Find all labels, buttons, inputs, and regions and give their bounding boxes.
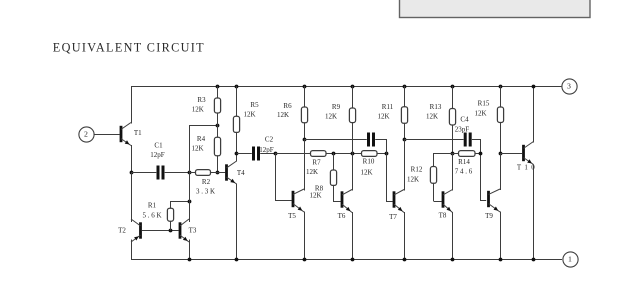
- node C1 / R2 / vertical: [188, 171, 192, 175]
- label R14 value 74.6: [455, 168, 473, 176]
- wire R12 corner to node: [434, 153, 453, 155]
- wire T10 collector to top rail: [533, 86, 535, 143]
- wire T2 emitter to bottom rail: [131, 240, 133, 260]
- label C2: [265, 136, 274, 144]
- svg-text:12K: 12K: [426, 113, 438, 121]
- wire terminal 2 to T1 base: [94, 134, 120, 136]
- svg-text:C1: C1: [154, 142, 163, 150]
- wire node to R14: [453, 153, 459, 155]
- wire node to C2: [237, 153, 252, 155]
- svg-text:7 4 . 6: 7 4 . 6: [455, 168, 473, 176]
- svg-text:R9: R9: [332, 103, 341, 111]
- wire R4 bottom lead: [217, 156, 219, 173]
- label C4 value 23pF: [455, 125, 470, 133]
- svg-text:T7: T7: [389, 213, 397, 221]
- svg-text:R2: R2: [202, 178, 211, 186]
- transistor T1: [120, 123, 131, 146]
- node R15 top on rail: [499, 85, 503, 89]
- node T9 emitter on bottom rail: [499, 258, 503, 262]
- wire R3 bottom lead: [217, 113, 219, 125]
- transistor T10: [522, 142, 533, 165]
- label T7: [389, 213, 397, 221]
- resistor R10: [362, 151, 378, 157]
- wire corner down to T9 base: [480, 153, 486, 201]
- capacitor C4: [464, 133, 472, 147]
- label R8: [315, 185, 324, 193]
- resistor R13: [449, 109, 455, 126]
- wire R9 top lead: [352, 86, 354, 108]
- svg-text:R13: R13: [430, 103, 442, 111]
- wire node down to T9 collector: [500, 153, 502, 190]
- svg-text:12pF: 12pF: [150, 151, 165, 159]
- label R15: [478, 99, 490, 107]
- node R9 top on rail: [351, 85, 355, 89]
- svg-text:2: 2: [84, 130, 88, 139]
- svg-text:T4: T4: [237, 169, 245, 177]
- label R9 value 12K: [325, 113, 337, 121]
- wire R9 node down to T6 collector: [352, 153, 354, 191]
- resistor R14: [459, 151, 476, 157]
- label R2 value 3.3K: [196, 187, 215, 195]
- capacitor C1: [157, 166, 165, 180]
- wire T9 emitter to bottom rail: [500, 212, 502, 260]
- label T3: [189, 227, 197, 235]
- wire R3R4 junction to vertical: [189, 125, 217, 127]
- wire C1 to node: [165, 172, 189, 174]
- label R6: [283, 102, 292, 110]
- node T10 emitter on bottom rail: [532, 258, 536, 262]
- node R14 right / C4 / T9 base: [479, 152, 483, 156]
- svg-text:3 . 3 K: 3 . 3 K: [196, 187, 215, 195]
- node R6 top on rail: [303, 85, 307, 89]
- svg-text:EQUIVALENT CIRCUIT: EQUIVALENT CIRCUIT: [53, 40, 205, 54]
- wire R15 bottom lead: [500, 123, 502, 154]
- wire row1 node to C3: [304, 139, 367, 141]
- node R1 tee on vertical: [188, 200, 192, 204]
- label R13 value 12K: [426, 113, 438, 121]
- transistor T9: [487, 189, 500, 212]
- node R9 bottom / T6 collector on row2: [351, 152, 355, 156]
- svg-text:12pF: 12pF: [259, 146, 274, 154]
- svg-text:3: 3: [567, 82, 571, 91]
- wire R11 bottom lead: [404, 123, 406, 139]
- svg-text:T1: T1: [134, 129, 142, 137]
- wire R11 top lead: [404, 86, 406, 107]
- svg-text:12K: 12K: [243, 111, 255, 119]
- svg-text:23pF: 23pF: [455, 125, 470, 133]
- label T10: [517, 163, 536, 171]
- node T8 emitter on bottom rail: [451, 258, 455, 262]
- resistor R3: [214, 98, 220, 113]
- wire T2 collector vertical: [131, 173, 133, 223]
- label R3 value 12K: [192, 106, 204, 114]
- wire tap to R7: [275, 153, 311, 155]
- transistor T5: [292, 189, 304, 212]
- node R1 bottom on base link: [169, 229, 173, 233]
- label R10 value 12K: [360, 169, 372, 177]
- label C1 value 12pF: [150, 151, 165, 159]
- wire C4 to corner: [472, 139, 481, 153]
- node T10 collector on rail: [532, 85, 536, 89]
- svg-text:R10: R10: [363, 158, 375, 166]
- wire node down to T7 collector: [404, 139, 406, 191]
- label R5 value 12K: [243, 111, 255, 119]
- label C4: [460, 115, 469, 123]
- svg-text:R15: R15: [478, 99, 490, 107]
- wire R1 bottom to base link: [170, 221, 172, 230]
- label R8 value 12K: [309, 191, 321, 199]
- wire T5 emitter to bottom rail: [304, 212, 306, 260]
- svg-text:5 . 6 K: 5 . 6 K: [142, 211, 161, 219]
- label T2: [118, 227, 126, 235]
- wire T1 collector to top rail: [131, 86, 133, 124]
- svg-text:R6: R6: [283, 102, 292, 110]
- resistor R5: [233, 116, 239, 132]
- resistor R7: [311, 151, 327, 157]
- wire node down to T8 collector: [452, 153, 454, 191]
- svg-text:T9: T9: [485, 212, 493, 220]
- partial gray panel top-right: [400, 0, 591, 18]
- node R8 tap: [332, 152, 336, 156]
- capacitor C2: [252, 147, 260, 161]
- label T6: [338, 212, 346, 220]
- wire bottom rail: [131, 259, 562, 261]
- wire T7 emitter to bottom rail: [404, 212, 406, 259]
- svg-text:12K: 12K: [325, 113, 337, 121]
- svg-text:1: 1: [568, 255, 572, 264]
- wire R9 bottom lead: [352, 123, 354, 153]
- resistor R4: [214, 137, 220, 156]
- svg-text:T6: T6: [338, 212, 346, 220]
- wire T5 base drop: [275, 153, 292, 201]
- capacitor C3: [367, 133, 375, 147]
- label R14: [458, 158, 470, 166]
- wire R15 node to T10 base: [500, 153, 522, 155]
- transistor T7: [393, 190, 404, 213]
- label R4: [197, 135, 206, 143]
- node R10 right / C3 drop / T7 base: [385, 152, 389, 156]
- wire C3 to corner: [375, 139, 386, 153]
- node R13 / T8 collector / R14 wire: [451, 152, 455, 156]
- svg-text:12K: 12K: [360, 169, 372, 177]
- node R5 top on rail: [235, 85, 239, 89]
- wire T7 node to C4: [404, 139, 464, 141]
- label T8: [439, 212, 447, 220]
- wire R14 to C4 node: [475, 153, 480, 155]
- wire T6 emitter to bottom rail: [352, 212, 354, 259]
- transistor T6: [341, 190, 352, 213]
- transistor T4: [225, 161, 237, 184]
- wire node to C1: [131, 172, 156, 174]
- resistor R15: [497, 107, 503, 123]
- wire T3 emitter to bottom rail: [189, 240, 191, 260]
- label R5: [250, 101, 259, 109]
- wire R13 top lead: [452, 86, 454, 109]
- resistor R11: [401, 107, 407, 124]
- node R11 / T7 collector / C4 wire: [403, 138, 407, 142]
- svg-text:T3: T3: [189, 227, 197, 235]
- resistor R12: [430, 167, 436, 184]
- wire R12 top drop: [433, 153, 435, 167]
- wire R13 bottom lead crossing row1: [452, 125, 454, 153]
- wire corner down to T7 base: [386, 153, 393, 202]
- svg-text:T5: T5: [288, 212, 296, 220]
- terminal 1: [563, 252, 578, 267]
- node R5 / T4 collector / C2: [235, 152, 239, 156]
- svg-text:R1: R1: [148, 202, 157, 210]
- wire R6 node down to T5 collector: [304, 139, 306, 191]
- node R4 bottom on R2 wire: [216, 171, 220, 175]
- svg-text:R12: R12: [411, 166, 423, 174]
- node R3 top on rail: [216, 85, 220, 89]
- label T1: [134, 129, 142, 137]
- wire T2-T3 base link: [142, 230, 179, 232]
- label R10: [363, 158, 375, 166]
- node T1 emitter / T2 collector / C1: [130, 171, 134, 175]
- svg-text:T8: T8: [439, 212, 447, 220]
- svg-text:R7: R7: [312, 159, 321, 167]
- label R6 value 12K: [277, 111, 289, 119]
- label T4: [237, 169, 245, 177]
- node T6 emitter on bottom rail: [351, 258, 355, 262]
- wire R12 bottom to T8 base: [434, 183, 442, 201]
- wire node to R2: [189, 172, 196, 174]
- wire R7 to R10: [326, 153, 362, 155]
- label R11: [382, 103, 394, 111]
- node R11 top on rail: [403, 85, 407, 89]
- svg-text:12K: 12K: [191, 145, 203, 153]
- node R3-R4 junction: [216, 124, 220, 128]
- svg-text:R4: R4: [197, 135, 206, 143]
- node T4 emitter on bottom rail: [235, 258, 239, 262]
- wire C2 to T5 base node: [260, 153, 275, 155]
- wire R2 to T4 base: [211, 172, 226, 174]
- node R6 / T5 collector / row1: [303, 138, 307, 142]
- wire R1 top tee: [171, 201, 190, 208]
- svg-text:12K: 12K: [474, 110, 486, 118]
- wire R6 top lead: [304, 86, 306, 107]
- svg-text:12K: 12K: [407, 176, 419, 184]
- title text EQUIVALENT CIRCUIT: [53, 40, 205, 54]
- node T7 emitter on bottom rail: [403, 258, 407, 262]
- svg-text:R5: R5: [250, 101, 259, 109]
- label C2 value 12pF: [259, 146, 274, 154]
- resistor R8: [330, 170, 336, 185]
- wire R6 bottom lead: [304, 123, 306, 139]
- svg-text:R3: R3: [197, 96, 206, 104]
- label T9: [485, 212, 493, 220]
- resistor R1: [167, 208, 173, 221]
- label R13: [430, 103, 442, 111]
- label R4 value 12K: [191, 145, 203, 153]
- wire R5 bottom lead: [236, 132, 238, 153]
- label R7 value 12K: [306, 168, 318, 176]
- wire top supply rail: [131, 86, 561, 88]
- wire R8 tap down: [333, 153, 335, 170]
- wire T1 emitter down to node: [131, 145, 133, 173]
- wire T4 collector up to node: [236, 153, 238, 162]
- node T5 emitter on bottom rail: [303, 258, 307, 262]
- svg-text:12K: 12K: [277, 111, 289, 119]
- svg-text:C4: C4: [460, 115, 469, 123]
- wire R5 top lead: [236, 86, 238, 116]
- wire T8 emitter to bottom rail: [452, 212, 454, 259]
- svg-text:R14: R14: [458, 158, 470, 166]
- wire vertical R3R4 junction down to T3 collector: [189, 125, 191, 222]
- transistor T8: [442, 190, 453, 213]
- wire T4 emitter to bottom rail: [236, 184, 238, 260]
- label R11 value 12K: [377, 113, 389, 121]
- label C1: [154, 142, 163, 150]
- wire R4 top lead: [217, 125, 219, 137]
- resistor R6: [301, 107, 307, 123]
- svg-text:C2: C2: [265, 136, 274, 144]
- node T5 base tap: [274, 152, 278, 156]
- label R12 value 12K: [407, 176, 419, 184]
- label T5: [288, 212, 296, 220]
- wire T10 emitter to bottom rail: [533, 165, 535, 260]
- wire R3 top lead: [217, 86, 219, 98]
- wire R15 top lead: [500, 86, 502, 107]
- terminal 2: [79, 127, 94, 142]
- terminal 3: [562, 79, 577, 94]
- transistor T2: [131, 219, 142, 242]
- label R15 value 12K: [474, 110, 486, 118]
- wire R8 bottom to T6 base: [333, 185, 341, 201]
- svg-text:12K: 12K: [309, 191, 321, 199]
- resistor R9: [349, 108, 355, 123]
- node R13 top on rail: [451, 85, 455, 89]
- node R15 / T9 collector / T10 base: [499, 152, 503, 156]
- label R12: [411, 166, 423, 174]
- resistor R2: [196, 170, 211, 176]
- svg-text:12K: 12K: [377, 113, 389, 121]
- svg-text:T 1 0: T 1 0: [517, 163, 536, 171]
- svg-text:T2: T2: [118, 227, 126, 235]
- label R1 value 5.6K: [142, 211, 161, 219]
- svg-text:12K: 12K: [306, 168, 318, 176]
- wire R10 to corner node: [377, 153, 386, 155]
- label R9: [332, 103, 341, 111]
- node T3 emitter on bottom rail: [188, 258, 192, 262]
- svg-text:R11: R11: [382, 103, 394, 111]
- transistor T3: [179, 219, 189, 242]
- label R3: [197, 96, 206, 104]
- label R7: [312, 159, 321, 167]
- svg-text:12K: 12K: [192, 106, 204, 114]
- label R2: [202, 178, 211, 186]
- label R1: [148, 202, 157, 210]
